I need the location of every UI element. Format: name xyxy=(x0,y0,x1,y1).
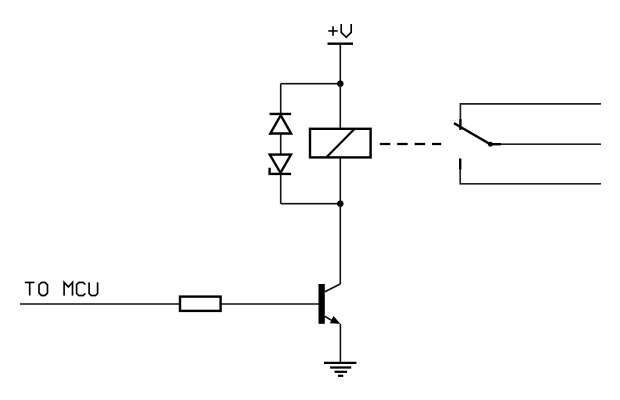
wire +V stem xyxy=(339,44,341,84)
net label TO MCU xyxy=(25,282,98,295)
contact NC stub xyxy=(459,119,461,130)
power rail +V bar xyxy=(328,43,354,45)
contact NO stub xyxy=(459,159,461,170)
relay coil K1 box xyxy=(310,129,371,158)
wire coil top xyxy=(339,84,341,129)
contact common stub xyxy=(490,143,501,145)
node junction top xyxy=(337,80,344,87)
wire bottom branch horizontal xyxy=(281,203,341,205)
wire diode branch upper xyxy=(280,84,282,114)
resistor R1 body xyxy=(180,297,221,311)
relay coil K1 diagonal xyxy=(326,129,354,157)
transistor Q1 emitter lead xyxy=(325,316,334,322)
net label +V xyxy=(328,24,351,37)
diode D1 cathode bar xyxy=(270,113,292,115)
wire top branch horizontal xyxy=(281,83,341,85)
wire diode branch lower xyxy=(280,174,282,204)
transistor Q1 emitter arrow xyxy=(330,316,341,324)
wire emitter to ground xyxy=(339,324,341,363)
wire NO terminal bottom xyxy=(460,170,601,184)
wire coil bottom xyxy=(339,157,341,203)
contact pivot dot xyxy=(488,142,493,147)
wire common terminal middle xyxy=(501,143,601,145)
zener D2 triangle xyxy=(270,155,291,173)
zener D2 cathode bar with bend xyxy=(270,168,292,174)
wire NC terminal top xyxy=(460,104,601,119)
node junction bottom xyxy=(337,200,344,207)
wire base right xyxy=(221,303,319,305)
transistor Q1 base bar xyxy=(319,284,325,324)
wire base left xyxy=(20,303,180,305)
contact arm xyxy=(454,123,490,144)
diode D1 triangle xyxy=(270,115,291,133)
mechanical link dashed line xyxy=(380,143,441,145)
ground symbol xyxy=(324,363,356,376)
wire between diodes xyxy=(280,134,282,155)
transistor Q1 collector lead xyxy=(325,284,341,292)
wire collector xyxy=(339,204,341,284)
